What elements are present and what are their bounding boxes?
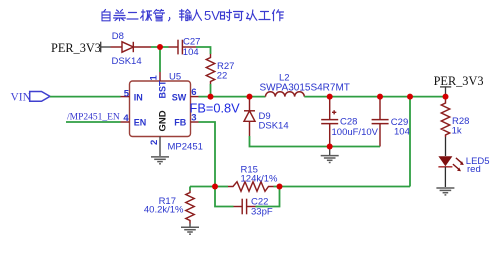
- 以: [247, 10, 257, 20]
- svg-text:104: 104: [394, 126, 410, 137]
- node R27 junction: [208, 94, 214, 100]
- ground (under U5): [151, 157, 169, 164]
- resistor R28: [441, 97, 449, 137]
- svg-text:PER_3V3: PER_3V3: [434, 74, 484, 88]
- node FB divider right: [277, 184, 283, 190]
- svg-text:33pF: 33pF: [251, 206, 273, 217]
- svg-text:DSK14: DSK14: [259, 120, 289, 131]
- wire (divider riser): [409, 97, 411, 187]
- node D9 junction: [247, 94, 253, 100]
- resistor R27: [206, 54, 214, 84]
- LED5: [445, 137, 447, 156]
- wire (divider to output riser): [280, 186, 411, 188]
- 管: [154, 10, 165, 21]
- svg-text:FB=0.8V: FB=0.8V: [190, 101, 241, 116]
- capacitor C22: [215, 187, 234, 207]
- svg-text:red: red: [467, 164, 481, 175]
- wire (SW rail to L2): [199, 96, 266, 98]
- wire (gnd rail to C29): [330, 146, 380, 148]
- node divider riser: [407, 94, 413, 100]
- wire (R27 to SW rail): [210, 84, 212, 97]
- svg-text:5V: 5V: [204, 8, 220, 23]
- wire (C27 to R27 corner): [196, 47, 211, 54]
- capacitor C27: [169, 40, 197, 55]
- node C28 bottom: [327, 144, 333, 150]
- svg-text:MP2451: MP2451: [168, 142, 203, 153]
- capacitor C29: [372, 97, 389, 147]
- 自: [102, 10, 110, 21]
- inductor L2: [266, 92, 305, 97]
- wire (D8 to C27 junction): [151, 46, 169, 48]
- svg-text:U5: U5: [169, 71, 181, 82]
- svg-text:GND: GND: [157, 110, 168, 131]
- svg-text:100uF/10V: 100uF/10V: [332, 127, 379, 138]
- ，: [169, 18, 170, 21]
- 时: [221, 10, 232, 21]
- 可: [234, 12, 244, 21]
- svg-text:104: 104: [183, 47, 199, 58]
- svg-text:5: 5: [124, 88, 130, 99]
- svg-text:2: 2: [149, 140, 160, 145]
- svg-text:22: 22: [217, 71, 228, 82]
- note text (Chinese annotation): [102, 10, 284, 21]
- 二: [127, 13, 138, 20]
- svg-text:PER_3V3: PER_3V3: [51, 41, 101, 55]
- svg-text:1k: 1k: [452, 125, 462, 136]
- wire (EN net): [66, 121, 121, 123]
- ground (under C28): [329, 147, 331, 156]
- svg-text:6: 6: [191, 87, 196, 98]
- svg-text:FB: FB: [174, 118, 186, 128]
- svg-text:40.2k/1%: 40.2k/1%: [144, 205, 184, 216]
- wire (junction down to BST pin): [159, 47, 161, 72]
- pin 6 SW (right): [191, 96, 199, 98]
- node FB divider left: [212, 184, 218, 190]
- pin 4 EN (left): [121, 121, 130, 123]
- svg-text:SWPA3015S4R7MT: SWPA3015S4R7MT: [260, 83, 350, 94]
- diode D8: [111, 42, 152, 52]
- 作: [273, 10, 284, 21]
- svg-text:4: 4: [123, 113, 129, 124]
- svg-text:EN: EN: [134, 118, 147, 128]
- wire (R17 top row): [190, 186, 215, 188]
- svg-text:124k/1%: 124k/1%: [241, 173, 279, 184]
- ground (under LED5): [436, 188, 454, 195]
- pin 3 FB (right): [191, 121, 199, 123]
- wire (D9 anode to gnd rail): [250, 136, 330, 147]
- LED5 arrows: [453, 158, 464, 171]
- diode D9: [244, 97, 255, 136]
- pin 5 IN (left): [121, 96, 130, 98]
- 工: [259, 12, 270, 20]
- pin 2 GND (bottom): [159, 137, 161, 157]
- svg-text:D8: D8: [112, 31, 124, 42]
- svg-text:BST: BST: [157, 80, 167, 99]
- node R28 top: [443, 94, 449, 100]
- pin 1 BST (top): [159, 72, 161, 81]
- capacitor C28 (polarized): [321, 97, 338, 147]
- op IC U5 MP2451: [130, 81, 191, 137]
- svg-text:SW: SW: [172, 93, 187, 103]
- 极: [141, 10, 152, 21]
- node C28 top: [327, 94, 333, 100]
- node C29 top: [377, 94, 383, 100]
- node junction at C27/BST: [157, 44, 163, 50]
- 入: [193, 10, 202, 20]
- svg-text:C27: C27: [183, 36, 200, 47]
- 举: [114, 10, 126, 21]
- ground (under R17): [189, 224, 191, 228]
- resistor R15: [215, 186, 228, 188]
- wire (VIN to IN pin): [50, 96, 121, 98]
- svg-text:VIN: VIN: [11, 91, 32, 103]
- svg-text:IN: IN: [134, 93, 143, 103]
- resistor R17: [189, 187, 191, 191]
- svg-text:DSK14: DSK14: [112, 56, 142, 67]
- svg-text:C28: C28: [340, 116, 357, 127]
- svg-text:1: 1: [149, 75, 160, 81]
- wire (FB pin to divider): [199, 122, 216, 187]
- wire (L2 to PER_3V3 right): [304, 96, 445, 98]
- 输: [180, 10, 192, 21]
- svg-text:/MP2451_EN: /MP2451_EN: [67, 112, 120, 122]
